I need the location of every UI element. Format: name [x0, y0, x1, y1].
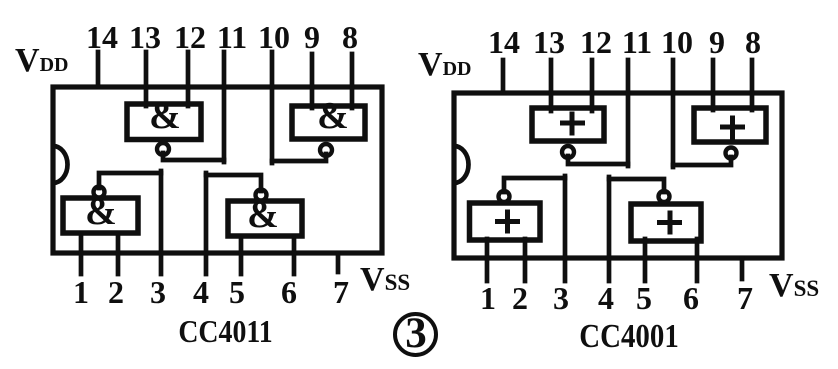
G6 output inversion bubble [726, 148, 737, 159]
G7 output inversion bubble [499, 191, 510, 202]
NAND gate G4 (pins 5,6 -> 4) body [228, 201, 302, 236]
svg-text:3: 3 [150, 274, 166, 310]
pin 14 lead (VDD) [96, 52, 101, 86]
wire G7 output to pin 3 [504, 178, 565, 192]
pin 7 lead (VSS) [740, 258, 745, 279]
pin 1 lead [79, 233, 84, 274]
pin 7 lead (VSS) [336, 253, 341, 272]
pin 5 lead [239, 236, 244, 274]
pin 11 lead [626, 60, 631, 166]
pin 12 lead [186, 52, 191, 106]
svg-text:CC4001: CC4001 [579, 317, 679, 355]
svg-text:3: 3 [405, 310, 427, 357]
pin-1 index notch (left edge semicircle) [53, 146, 68, 183]
NOR gate G5 (pins 13,12 -> 11) body [532, 108, 604, 141]
svg-text:8: 8 [745, 24, 761, 60]
svg-text:10: 10 [661, 24, 693, 60]
svg-text:2: 2 [512, 280, 528, 316]
pin 9 lead [310, 54, 315, 108]
G3 output inversion bubble [94, 187, 105, 198]
svg-text:CC4011: CC4011 [178, 314, 272, 349]
wire G2 output to pin 10 [272, 154, 326, 161]
svg-text:6: 6 [683, 280, 699, 316]
svg-text:1: 1 [73, 274, 89, 310]
NAND gate G1 (pins 13,12 -> 11) body [127, 104, 201, 140]
pin 11 lead [222, 52, 227, 162]
svg-text:5: 5 [229, 274, 245, 310]
wire G4 output to pin 4 [206, 175, 261, 191]
pin 13 lead [144, 52, 149, 106]
svg-text:13: 13 [129, 19, 161, 55]
pin 9 lead [711, 60, 716, 110]
svg-text:12: 12 [580, 24, 612, 60]
svg-text:3: 3 [553, 280, 569, 316]
pin 6 lead [695, 239, 700, 281]
wire G5 output to pin 11 [568, 156, 628, 164]
G7 "+" function label [495, 210, 520, 234]
wire G6 output to pin 10 [673, 157, 731, 165]
svg-text:14: 14 [488, 24, 520, 60]
svg-text:7: 7 [737, 280, 753, 316]
pin 2 lead [116, 233, 121, 274]
svg-text:5: 5 [636, 280, 652, 316]
svg-text:9: 9 [709, 24, 725, 60]
pin 5 lead [643, 239, 648, 281]
pin 12 lead [590, 60, 595, 111]
svg-text:6: 6 [281, 274, 297, 310]
pin 4 lead [204, 173, 209, 274]
svg-text:11: 11 [217, 19, 247, 55]
IC package body U2 CC4001 [454, 93, 782, 258]
svg-text:8: 8 [342, 19, 358, 55]
pin-1 index notch (left edge semicircle) [454, 146, 469, 183]
svg-text:7: 7 [333, 274, 349, 310]
svg-text:14: 14 [86, 19, 118, 55]
wire G8 output to pin 4 [609, 179, 664, 192]
pin 10 lead [671, 60, 676, 167]
pin 6 lead [292, 236, 297, 274]
pin 14 lead (VDD) [501, 60, 506, 92]
wire G1 output to pin 11 [163, 153, 224, 160]
pin 10 lead [270, 52, 275, 163]
NOR gate G7 (pins 1,2 -> 3) body [470, 203, 541, 240]
pin 4 lead [607, 177, 612, 281]
svg-text:13: 13 [533, 24, 565, 60]
NOR gate G8 (pins 5,6 -> 4) body [631, 204, 701, 241]
G2 output inversion bubble [320, 144, 332, 156]
IC package body U1 CC4011 [53, 87, 382, 253]
NAND gate G3 (pins 1,2 -> 3) body [63, 198, 138, 233]
G6 "+" function label [720, 116, 745, 140]
pin 2 lead [523, 239, 528, 281]
svg-text:9: 9 [304, 19, 320, 55]
NAND gate G2 (pins 9,8 -> 10) body [292, 106, 365, 139]
G5 output inversion bubble [562, 146, 574, 158]
svg-text:4: 4 [598, 280, 614, 316]
G8 "+" function label [657, 211, 682, 235]
pin 8 lead [350, 54, 355, 108]
svg-text:11: 11 [622, 24, 652, 60]
svg-text:10: 10 [258, 19, 290, 55]
pin 3 lead [563, 176, 568, 281]
G4 output inversion bubble [256, 190, 267, 201]
svg-text:12: 12 [174, 19, 206, 55]
svg-text:&: & [317, 95, 349, 137]
pin 1 lead [485, 239, 490, 281]
G8 output inversion bubble [659, 191, 670, 202]
svg-text:4: 4 [193, 274, 209, 310]
svg-text:2: 2 [108, 274, 124, 310]
G1 output inversion bubble [157, 143, 169, 155]
wire G3 output to pin 3 [99, 173, 161, 188]
pin 13 lead [549, 60, 554, 111]
figure number circled 3 [395, 314, 436, 355]
svg-text:1: 1 [480, 280, 496, 316]
pin 8 lead [750, 60, 755, 110]
NOR gate G6 (pins 9,8 -> 10) body [694, 108, 766, 142]
svg-text:&: & [149, 95, 181, 137]
pin 3 lead [159, 171, 164, 274]
G5 "+" function label [560, 112, 585, 136]
